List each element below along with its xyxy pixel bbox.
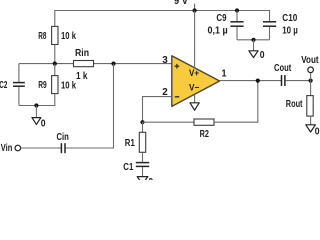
svg-text:1 k: 1 k xyxy=(76,71,88,82)
wire top rail xyxy=(55,11,270,27)
capacitor Cin xyxy=(60,143,62,153)
svg-text:Vin: Vin xyxy=(1,143,13,154)
svg-text:R9: R9 xyxy=(38,80,47,91)
svg-text:1: 1 xyxy=(222,69,227,80)
node supply junction xyxy=(193,8,197,12)
resistor R1 xyxy=(142,122,144,132)
svg-text:Cin: Cin xyxy=(57,132,69,143)
ground Rout xyxy=(306,125,316,132)
svg-text:0: 0 xyxy=(315,126,320,137)
capacitor C10 xyxy=(263,21,276,23)
op-amp ground stub xyxy=(194,94,196,103)
resistor R9 xyxy=(54,64,56,76)
node C9/C10 junction xyxy=(251,38,255,42)
svg-text:0: 0 xyxy=(148,177,153,180)
wire Vin line xyxy=(21,147,61,149)
wire C9/C10 ground rail xyxy=(237,39,270,41)
ground C1 (clipped) xyxy=(137,177,148,185)
wire pin2 to feedback node xyxy=(143,97,172,123)
node output junction xyxy=(256,79,260,83)
svg-text:R8: R8 xyxy=(38,31,46,42)
capacitor C2 xyxy=(18,64,20,82)
svg-text:Rin: Rin xyxy=(75,48,89,59)
svg-text:0: 0 xyxy=(260,50,265,61)
svg-text:10 k: 10 k xyxy=(61,81,76,92)
ground op-amp xyxy=(190,103,199,110)
wire bias line xyxy=(19,63,74,65)
wire R8 bottom xyxy=(54,45,56,64)
terminal Vout xyxy=(310,73,312,81)
svg-text:0: 0 xyxy=(41,118,46,129)
svg-text:10 µ: 10 µ xyxy=(282,26,298,37)
wire Cin to input node xyxy=(65,64,113,148)
resistor Rin xyxy=(74,61,94,67)
svg-text:0,1 µ: 0,1 µ xyxy=(208,25,228,36)
svg-text:C1: C1 xyxy=(123,162,133,173)
svg-text:Cout: Cout xyxy=(274,63,292,74)
wire supply stub xyxy=(194,4,196,11)
svg-text:3: 3 xyxy=(162,55,168,66)
svg-text:C2: C2 xyxy=(0,80,8,91)
svg-text:R1: R1 xyxy=(125,138,135,149)
svg-text:C10: C10 xyxy=(282,13,297,24)
svg-text:R2: R2 xyxy=(200,129,210,140)
svg-text:C9: C9 xyxy=(216,13,227,24)
svg-text:V+: V+ xyxy=(189,68,199,79)
capacitor C1 xyxy=(142,152,144,162)
ground C9/C10 xyxy=(253,40,255,51)
svg-text:9 V: 9 V xyxy=(174,0,188,7)
node Vout junction xyxy=(309,79,313,83)
node bias junction xyxy=(53,62,57,66)
wire Cout to Vout xyxy=(285,80,310,82)
resistor R8 xyxy=(52,26,58,44)
svg-text:Rout: Rout xyxy=(286,99,303,110)
svg-text:Vout: Vout xyxy=(301,55,319,66)
wire R9 bottom to ground rail xyxy=(19,94,55,106)
resistor Rout xyxy=(310,81,312,96)
wire R2 to output xyxy=(214,81,258,123)
node ground junction xyxy=(34,103,38,107)
capacitor C9 xyxy=(236,11,238,22)
svg-text:10 k: 10 k xyxy=(61,31,76,42)
op-amp minus mark xyxy=(175,96,179,98)
node C9 tap junction xyxy=(235,8,239,12)
node feedback junction xyxy=(140,120,144,124)
resistor R2 xyxy=(143,121,195,123)
op-amp plus mark xyxy=(175,65,180,67)
node input junction xyxy=(111,62,115,66)
svg-text:V−: V− xyxy=(189,83,200,94)
wire Rout to ground xyxy=(310,116,312,125)
wire C1 to ground xyxy=(142,167,144,177)
op-amp V+ supply wire xyxy=(194,11,196,69)
op-amp U1 xyxy=(172,56,220,107)
ground C2/R9 xyxy=(35,106,37,118)
capacitor Cout xyxy=(281,75,283,86)
wire output line xyxy=(220,80,281,82)
